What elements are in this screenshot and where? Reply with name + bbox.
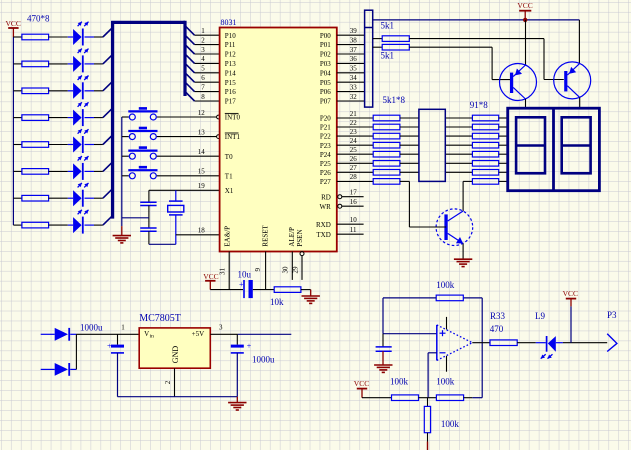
resistor network 91*8 element 1	[472, 115, 498, 121]
bus entry row 1 (left)	[103, 28, 113, 38]
LED D3	[68, 76, 94, 100]
display DS1 divider	[552, 108, 555, 191]
pin 17 RD stub	[338, 195, 364, 199]
svg-text:33: 33	[350, 83, 358, 91]
wire pin 27 stub	[337, 171, 373, 173]
svg-text:P00: P00	[320, 32, 331, 40]
wire pin 32 stub	[337, 100, 365, 102]
wire pin 26 stub	[337, 162, 373, 164]
wire resistor R2 to LED D2	[49, 63, 68, 65]
svg-text:P23: P23	[320, 142, 331, 150]
label 470*8	[27, 13, 50, 23]
wire pin 34 stub	[337, 81, 365, 83]
wire 91*8 to display row 4	[499, 144, 508, 146]
svg-text:23: 23	[350, 128, 358, 136]
wire between bottom resistors	[419, 397, 437, 399]
resistor 100k (mid bottom)	[436, 395, 463, 401]
bus entry pin 4	[185, 54, 195, 64]
svg-text:29: 29	[291, 266, 299, 274]
pin number 7	[201, 83, 205, 91]
wire pin 2 stub	[195, 44, 220, 46]
capacitor C5 1000u	[231, 334, 252, 396]
wire pin 6 stub	[195, 81, 220, 83]
pin number 2	[201, 36, 205, 44]
svg-text:V: V	[144, 330, 149, 338]
wire 5k1*8 to driver row 2	[400, 126, 419, 128]
pin number 14	[198, 148, 206, 156]
wire 91*8 to display row 6	[499, 162, 508, 164]
pin number 3 (7805)	[219, 324, 223, 332]
VCC (top right)	[517, 1, 532, 20]
ground (Q3)	[454, 259, 472, 266]
transistor Q1 collector lead	[525, 99, 527, 108]
pin number 17	[350, 188, 358, 196]
pin number 22	[350, 119, 358, 127]
wire 91*8 to display row 5	[499, 153, 508, 155]
svg-text:26: 26	[350, 155, 358, 163]
wire button S4 left	[122, 175, 129, 177]
svg-text:31: 31	[219, 268, 227, 276]
svg-text:VCC: VCC	[354, 379, 369, 388]
bus entry row 7 (left)	[103, 189, 113, 199]
wire 91*8 to display row 7	[499, 171, 508, 173]
IC U1 8031 body	[220, 28, 337, 252]
wire pin 38 stub	[337, 44, 365, 46]
wire LED D3 to bus	[94, 90, 103, 92]
svg-text:36: 36	[350, 55, 358, 63]
label P3	[607, 310, 617, 320]
driver box right row 2	[445, 126, 472, 128]
resistor network 91*8 element 3	[472, 133, 498, 139]
svg-text:470*8: 470*8	[27, 13, 50, 23]
wire ground rail (PSU)	[118, 396, 238, 398]
capacitor C1	[140, 202, 156, 205]
resistor network 91*8 element 4	[472, 142, 498, 148]
wire VCC feeder vertical (left)	[12, 37, 14, 225]
svg-text:P06: P06	[320, 88, 331, 96]
pin number 28	[350, 173, 358, 181]
pin number 24	[350, 137, 358, 145]
resistor network 5k1*8 element 5	[373, 151, 400, 157]
resistor network 5k1*8 element 7	[373, 170, 400, 176]
wire Q3 emitter to ground	[462, 244, 464, 259]
svg-text:INT0: INT0	[225, 114, 241, 122]
svg-text:12: 12	[198, 109, 206, 117]
resistor R6 470	[22, 169, 49, 175]
wire pin 21 stub	[337, 117, 373, 119]
bus P0 (outline box)	[365, 10, 373, 107]
switch S3	[128, 146, 157, 159]
svg-text:P3: P3	[607, 310, 617, 320]
display DS1 outer box	[508, 108, 600, 191]
svg-text:+: +	[247, 342, 252, 351]
driver box right row 4	[445, 144, 472, 146]
wire button S3 to pin 14	[157, 155, 220, 157]
pin number 33	[350, 83, 358, 91]
pin number 35	[350, 65, 358, 73]
pin 12 bubble	[217, 115, 221, 119]
bus entry pin 7	[185, 82, 195, 92]
svg-text:P12: P12	[225, 51, 236, 59]
svg-text:8: 8	[201, 93, 205, 101]
label 1000u (output cap)	[252, 355, 275, 365]
wire resistor R6 to LED D6	[49, 170, 68, 172]
resistor R1 470	[22, 34, 49, 40]
switch S2	[128, 127, 157, 140]
label 8031	[221, 18, 237, 27]
svg-text:ALE/P: ALE/P	[288, 227, 296, 247]
svg-text:P15: P15	[225, 79, 236, 87]
wire LED D6 to bus	[94, 170, 103, 172]
wire C1 to C2	[148, 206, 150, 229]
label 1000u (input cap)	[80, 322, 103, 332]
svg-text:RESET: RESET	[262, 224, 270, 246]
LED D6	[68, 156, 94, 180]
pin number 9	[254, 268, 262, 272]
resistor R7 470	[22, 195, 49, 201]
svg-text:VCC: VCC	[203, 272, 218, 281]
label 10u	[238, 270, 252, 280]
wire stub to resistor R2	[13, 63, 22, 65]
driver box right row 8	[463, 180, 472, 182]
VCC (op-amp)	[354, 379, 369, 398]
label 5k1 (first)	[381, 21, 395, 31]
pin 9 RESET stub	[265, 252, 267, 290]
pin number 38	[350, 36, 358, 44]
pin number 18	[198, 226, 206, 234]
resistor network 5k1*8 element 6	[373, 161, 400, 167]
wire button S4 to pin 15	[157, 175, 220, 177]
bus entry pin 1	[185, 26, 195, 36]
svg-text:in: in	[150, 334, 155, 340]
svg-text:38: 38	[350, 36, 358, 44]
svg-text:5: 5	[201, 65, 205, 73]
label MC7805T	[139, 313, 181, 324]
capacitor C6	[376, 334, 392, 365]
wire LED D1 to bus	[94, 36, 103, 38]
svg-text:P27: P27	[320, 178, 331, 186]
wire 5k1*8 to driver row 7	[400, 171, 419, 173]
resistor R2 470	[22, 61, 49, 67]
svg-text:P25: P25	[320, 160, 331, 168]
svg-text:100k: 100k	[436, 377, 455, 387]
pin number 19	[198, 182, 206, 190]
label 100k (vertical)	[441, 419, 460, 429]
wire 5k1*8 to driver row 1	[400, 117, 419, 119]
svg-text:INT1: INT1	[225, 133, 241, 141]
svg-text:35: 35	[350, 65, 358, 73]
svg-text:PSEN: PSEN	[296, 229, 304, 246]
svg-text:1: 1	[121, 324, 125, 332]
svg-text:P26: P26	[320, 169, 331, 177]
wire 5k1*8 to driver row 6	[400, 162, 419, 164]
wire output net vertical	[481, 298, 483, 398]
svg-text:17: 17	[350, 188, 358, 196]
wire button common vertical	[121, 117, 123, 226]
svg-text:GND: GND	[171, 346, 180, 364]
driver box right row 5	[445, 153, 472, 155]
wire button S1 left	[122, 116, 129, 118]
pin number 26	[350, 155, 358, 163]
resistor network 5k1*8 element 1	[373, 115, 400, 121]
wire pin 25 stub	[337, 153, 373, 155]
wire 10k to ground	[301, 290, 311, 296]
pin number 27	[350, 164, 358, 172]
svg-text:P01: P01	[320, 41, 331, 49]
svg-text:P03: P03	[320, 60, 331, 68]
svg-text:P14: P14	[225, 69, 236, 77]
label L9	[535, 311, 545, 321]
pin number 39	[350, 27, 358, 35]
pin number 4	[201, 55, 205, 63]
pin number 8	[201, 93, 205, 101]
svg-text:14: 14	[198, 148, 206, 156]
wire resistor R8 to LED D8	[49, 224, 68, 226]
wire pin 37 stub	[337, 53, 365, 55]
bus entry pin 6	[185, 73, 195, 83]
transistor Q2 emitter lead	[578, 20, 580, 64]
wire D10 to D9 junction	[75, 334, 77, 369]
transistor Q2 collector lead	[579, 97, 581, 108]
wire button S2 to pin 13	[157, 136, 217, 138]
switch S1	[128, 107, 157, 120]
LED D7	[68, 183, 94, 207]
driver box right row 7	[445, 171, 472, 173]
ground (PSU)	[228, 397, 246, 410]
wire pin 19 (X1)	[149, 190, 220, 201]
label 10k	[270, 297, 284, 307]
pin 30 ALE stub	[291, 252, 293, 280]
svg-text:P17: P17	[225, 98, 236, 106]
wire VCC to 100k	[362, 397, 392, 399]
svg-text:+5V: +5V	[192, 330, 205, 338]
label 5k1 (second)	[381, 51, 395, 61]
svg-text:VCC: VCC	[563, 289, 578, 298]
svg-text:37: 37	[350, 46, 358, 54]
wire to +input	[383, 333, 437, 335]
wire stub to resistor R6	[13, 170, 22, 172]
wire +5V out	[238, 333, 292, 335]
svg-text:P24: P24	[320, 151, 331, 159]
wire pin 8 stub	[195, 100, 220, 102]
svg-text:16: 16	[350, 198, 358, 206]
wire feedback top	[463, 297, 482, 299]
label 91*8	[470, 100, 489, 110]
svg-text:R33: R33	[490, 311, 506, 321]
wire pin 5 stub	[195, 72, 220, 74]
svg-text:VCC: VCC	[6, 19, 21, 28]
svg-text:1000u: 1000u	[252, 355, 275, 365]
svg-text:100k: 100k	[436, 280, 455, 290]
junction dot VCC	[523, 18, 527, 22]
LED D1	[68, 22, 94, 46]
svg-text:L9: L9	[535, 311, 545, 321]
pin number 3	[201, 46, 205, 54]
wire LED D7 to bus	[94, 197, 103, 199]
label 100k (left bottom)	[390, 377, 409, 387]
wire bottom to crystal	[149, 243, 176, 245]
svg-text:1000u: 1000u	[80, 322, 103, 332]
LED D8	[68, 210, 94, 234]
pin number 37	[350, 46, 358, 54]
svg-text:15: 15	[198, 168, 206, 176]
pin number 32	[350, 93, 358, 101]
diode D9	[41, 328, 77, 341]
diode D10	[41, 363, 77, 376]
pin number 21	[350, 110, 358, 118]
wire resistor R4 to LED D4	[49, 117, 68, 119]
capacitor C3 10u	[239, 280, 253, 298]
svg-text:100k: 100k	[441, 419, 460, 429]
svg-text:10: 10	[350, 216, 358, 224]
svg-text:18: 18	[198, 226, 206, 234]
pin number 6	[201, 74, 205, 82]
svg-text:P02: P02	[320, 51, 331, 59]
svg-text:13: 13	[198, 128, 206, 136]
label 100k (feedback)	[436, 280, 455, 290]
resistor network 91*8 element 5	[472, 151, 498, 157]
svg-text:3: 3	[219, 324, 223, 332]
svg-text:P04: P04	[320, 69, 331, 77]
pin 11 TXD stub	[337, 233, 364, 235]
svg-text:RD: RD	[321, 194, 331, 202]
pin number 12	[198, 109, 206, 117]
pin number 16	[350, 198, 358, 206]
wire LED D5 to bus	[94, 144, 103, 146]
wire 91*8 to display row 3	[499, 135, 508, 137]
crystal Y1	[168, 190, 184, 244]
label R33	[490, 311, 506, 321]
wire button S1 to pin 12	[157, 116, 217, 118]
svg-text:P16: P16	[225, 88, 236, 96]
svg-text:3: 3	[201, 46, 205, 54]
svg-text:TXD: TXD	[316, 231, 330, 239]
bus entry pin 2	[185, 35, 195, 45]
svg-text:100k: 100k	[390, 377, 409, 387]
transistor Q2	[554, 62, 591, 99]
wire feedback left	[383, 298, 436, 334]
pin 31 EA/VP stub	[228, 252, 230, 290]
wire pin 4 stub	[195, 62, 220, 64]
svg-text:32: 32	[350, 93, 358, 101]
svg-text:10k: 10k	[270, 297, 284, 307]
bus entry row 8 (left)	[103, 216, 113, 226]
wire 91*8 to display row 1	[499, 117, 508, 119]
wire regulator output	[210, 333, 237, 335]
resistor network 5k1*8 element 3	[373, 133, 400, 139]
svg-text:28: 28	[350, 173, 358, 181]
wire pin 33 stub	[337, 91, 365, 93]
bus entry pin 3	[185, 45, 195, 55]
transistor Q3	[436, 209, 473, 246]
ground (buttons)	[113, 226, 131, 243]
svg-text:P11: P11	[225, 41, 236, 49]
svg-text:27: 27	[350, 164, 358, 172]
resistor network 91*8 element 6	[472, 161, 498, 167]
wire 5k1*8 to driver row 8	[400, 181, 410, 227]
wire stub to resistor R7	[13, 197, 22, 199]
driver U2 (box)	[419, 109, 445, 181]
svg-text:5k1: 5k1	[381, 21, 395, 31]
label 5k1*8	[383, 95, 406, 105]
resistor 5k1 (first)	[373, 36, 564, 80]
wire button S2 left	[122, 136, 129, 138]
resistor network 91*8 element 8	[472, 179, 498, 185]
wire pin 18 (X2)	[176, 234, 220, 236]
wire resistor R3 to LED D3	[49, 90, 68, 92]
svg-text:VCC: VCC	[517, 1, 532, 10]
svg-text:91*8: 91*8	[470, 100, 489, 110]
svg-text:EA&/P: EA&/P	[224, 226, 232, 247]
transistor Q1	[500, 64, 537, 101]
resistor 100k feedback	[436, 295, 463, 301]
pin number 36	[350, 55, 358, 63]
wire 5k1*8 to driver row 5	[400, 153, 419, 155]
pin number 31	[219, 268, 227, 276]
ground (reset)	[302, 296, 320, 303]
wire pin 3 stub	[195, 53, 220, 55]
wire 5k1*8 to driver row 3	[400, 135, 419, 137]
resistor network 5k1*8 element 8	[373, 179, 400, 185]
svg-text:10u: 10u	[238, 270, 252, 280]
resistor 100k (vertical)	[424, 398, 430, 450]
svg-text:21: 21	[350, 110, 358, 118]
capacitor C4 1000u	[107, 334, 124, 396]
wire pin 23 stub	[337, 135, 373, 137]
wire stub to resistor R5	[13, 144, 22, 146]
wire resistor R5 to LED D5	[49, 144, 68, 146]
wire 91*8 to display row 2	[499, 126, 508, 128]
svg-text:T0: T0	[225, 153, 233, 161]
wire pin 7 stub	[195, 91, 220, 93]
bus entry row 4 (left)	[103, 108, 113, 118]
resistor network 91*8 element 7	[472, 170, 498, 176]
wire stub to resistor R1	[13, 36, 22, 38]
pin 2 wire down	[174, 368, 176, 397]
pin number 2 (7805)	[164, 380, 172, 384]
pin number 34	[350, 74, 358, 82]
svg-text:470: 470	[490, 324, 504, 334]
svg-text:4: 4	[201, 55, 205, 63]
bus entry row 6 (left)	[103, 162, 113, 172]
wire to right corner	[464, 397, 483, 399]
power VCC rail (top-left)	[6, 19, 21, 37]
svg-text:11: 11	[350, 226, 357, 234]
wire P0 bus to transistors (top)	[373, 19, 580, 21]
svg-text:24: 24	[350, 137, 358, 145]
svg-text:5k1: 5k1	[381, 51, 395, 61]
wire pin 1 stub	[195, 34, 220, 36]
svg-text:P10: P10	[225, 32, 236, 40]
wire pin 22 stub	[337, 126, 373, 128]
svg-text:5k1*8: 5k1*8	[383, 95, 406, 105]
wire C3 to 10k	[253, 289, 274, 291]
wire Q3 collector to display row	[462, 181, 464, 211]
op-amp U4	[437, 317, 473, 372]
bus entry row 2 (left)	[103, 54, 113, 64]
capacitor C2	[140, 228, 156, 231]
display DS1 left digit	[516, 117, 545, 173]
svg-text:34: 34	[350, 74, 358, 82]
pin number 15	[198, 168, 206, 176]
svg-text:19: 19	[198, 182, 206, 190]
wire pin 28 stub	[337, 180, 373, 182]
pin number 10	[350, 216, 358, 224]
driver box right row 6	[445, 162, 472, 164]
wire C2 down	[148, 231, 150, 244]
resistor R9 10k	[274, 287, 301, 293]
wire LED D8 to bus	[94, 224, 103, 226]
